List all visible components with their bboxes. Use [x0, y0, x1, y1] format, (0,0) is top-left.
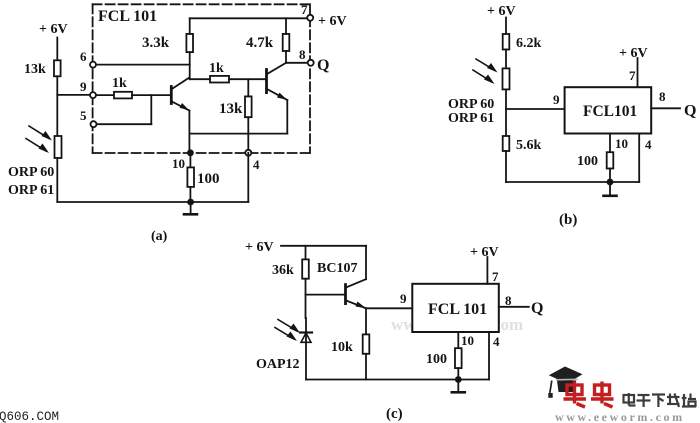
wire Q1 emitter down to pin10 — [188, 111, 190, 153]
pin 9 — [80, 79, 96, 98]
pin 8 wire (b) — [651, 107, 680, 109]
svg-text:Q606.COM: Q606.COM — [0, 410, 59, 423]
emitter rail wire — [189, 133, 287, 135]
resistor R 13k (internal) — [219, 96, 252, 117]
svg-text:+ 6V: + 6V — [619, 46, 648, 61]
LDR ORP60/61 body (b) — [503, 68, 510, 89]
wire LDR node down to 5.6k — [505, 89, 507, 136]
LDR ORP60/ORP61 body — [55, 136, 62, 158]
svg-text:Q: Q — [684, 103, 696, 120]
wire collector node to 1k — [190, 78, 210, 80]
logo graduation cap — [548, 367, 582, 398]
light arrow 2 (b) — [473, 70, 495, 84]
svg-text:7: 7 — [492, 269, 499, 284]
bottom rail (b) — [506, 181, 639, 183]
svg-text:4: 4 — [253, 157, 260, 172]
wire 1k to base Q2 — [229, 78, 266, 80]
wire +6V to 6.2k — [505, 18, 507, 35]
resistor R 100 (b) — [577, 152, 613, 169]
wire 4.7k bottom — [285, 51, 287, 63]
svg-text:7: 7 — [301, 2, 308, 17]
resistor R 100 — [187, 167, 219, 187]
svg-text:13k: 13k — [24, 62, 46, 77]
resistor R 5.6k — [503, 136, 542, 153]
light arrow 2 — [26, 139, 49, 154]
svg-text:ORP 60: ORP 60 — [8, 165, 54, 180]
wire pin6 to 3.3k node — [96, 64, 190, 66]
resistor R 1k (coupling) — [209, 61, 229, 83]
pin 7 — [301, 2, 313, 21]
wire collector up (c) — [365, 246, 367, 279]
svg-text:1k: 1k — [112, 76, 127, 91]
svg-text:100: 100 — [197, 171, 220, 187]
wire +6V to 13k — [56, 38, 58, 61]
wire 13k to LDR — [56, 76, 58, 136]
wire 6.2k to LDR — [505, 50, 507, 69]
svg-text:www.eeworm.com: www.eeworm.com — [555, 410, 685, 423]
logo chinese site name — [624, 393, 697, 407]
svg-text:9: 9 — [80, 79, 87, 94]
resistor R 13k — [24, 60, 61, 77]
resistor R 6.2k — [503, 34, 542, 51]
+6V supply label (a) — [39, 22, 68, 37]
transistor Q2 — [267, 63, 288, 100]
wire 3.3k bottom to collector node — [189, 52, 191, 79]
svg-text:9: 9 — [553, 92, 560, 107]
wire pin9 to R1k — [96, 94, 114, 96]
light arrow 1 (b) — [476, 59, 498, 73]
resistor R 1k (input) — [112, 76, 132, 98]
ground node (b) — [607, 179, 614, 186]
photodiode OAP12 — [300, 318, 312, 380]
ground node (a) — [187, 199, 194, 206]
svg-text:ORP 61: ORP 61 — [8, 183, 54, 198]
svg-text:36k: 36k — [272, 263, 294, 278]
svg-text:4.7k: 4.7k — [246, 35, 274, 51]
wire Q2 emitter down — [286, 100, 288, 134]
pin 8 — [299, 47, 314, 66]
wire 100 to ground node — [189, 187, 191, 202]
svg-text:(a): (a) — [151, 229, 168, 244]
wire collector node to pin 8 — [286, 62, 308, 64]
wire 13k bottom to pin4 — [247, 117, 249, 153]
ground rail wire (a) — [57, 201, 248, 203]
top rail inside IC — [190, 17, 311, 19]
svg-text:7: 7 — [629, 68, 636, 83]
svg-text:100: 100 — [426, 352, 447, 367]
pin 8 wire (c) — [499, 306, 529, 308]
wire 1k to base Q1 — [132, 94, 171, 96]
wire node to pin 9 — [57, 94, 92, 96]
svg-text:BC107: BC107 — [317, 261, 357, 276]
wire 5.6k down (b) — [505, 151, 507, 182]
svg-text:+ 6V: + 6V — [39, 22, 68, 37]
wire LDR to ground rail — [56, 158, 58, 202]
wire top to 36k — [305, 246, 307, 260]
svg-text:5.6k: 5.6k — [516, 138, 542, 153]
resistor R 4.7k — [246, 34, 289, 51]
svg-text:FCL101: FCL101 — [583, 103, 637, 120]
svg-text:(c): (c) — [386, 406, 403, 422]
IC U1 FCL101 dashed box — [93, 4, 310, 153]
svg-text:100: 100 — [577, 154, 598, 169]
svg-text:+ 6V: + 6V — [318, 14, 347, 29]
svg-text:+ 6V: + 6V — [470, 245, 499, 260]
svg-text:6: 6 — [80, 49, 87, 64]
resistor R 10k — [331, 334, 369, 355]
svg-text:FCL 101: FCL 101 — [428, 301, 487, 318]
wire 13k top — [247, 79, 249, 96]
wire base node to Q3 — [306, 294, 345, 296]
IC U3 FCL 101 box — [412, 284, 499, 332]
svg-text:OAP12: OAP12 — [256, 357, 300, 372]
svg-text:FCL 101: FCL 101 — [98, 8, 157, 25]
svg-text:ORP 61: ORP 61 — [448, 111, 494, 126]
svg-text:4: 4 — [493, 334, 500, 349]
wire 3.3k top — [189, 18, 191, 34]
top rail (c) — [281, 245, 366, 247]
wire emitter to pin 9 (c) — [366, 307, 412, 309]
ground node (c) — [455, 376, 462, 383]
svg-text:5: 5 — [80, 108, 87, 123]
resistor R 100 (c) — [426, 348, 462, 368]
pin 5 — [80, 108, 97, 127]
pin 7 wire (c) — [486, 257, 488, 284]
wire 100 bottom (b) — [609, 169, 611, 183]
pin 10 wire (c) — [457, 332, 459, 348]
svg-text:8: 8 — [659, 89, 666, 104]
svg-text:+ 6V: + 6V — [245, 240, 274, 255]
svg-text:9: 9 — [400, 291, 407, 306]
pin 6 — [80, 49, 96, 68]
wire pin5 loop — [97, 95, 152, 124]
light arrow 1 — [29, 126, 52, 141]
pin 4 — [245, 150, 260, 172]
pin 4 wire (b) — [638, 134, 640, 183]
pin 7 wire (b) — [637, 58, 639, 87]
pin 4 wire (c) — [488, 332, 490, 380]
transistor Q3 BC107 — [346, 279, 367, 308]
svg-text:10: 10 — [615, 136, 628, 151]
svg-text:+ 6V: + 6V — [487, 4, 516, 19]
svg-text:8: 8 — [299, 47, 306, 62]
pin 10 junction — [172, 149, 194, 171]
wire 36k to base node and photodiode — [305, 279, 307, 318]
wire 4.7k top — [285, 18, 287, 34]
svg-text:10k: 10k — [331, 340, 353, 355]
bottom rail (c) — [306, 379, 489, 381]
light arrow 2 (c) — [275, 328, 297, 342]
IC U2 FCL101 box — [565, 87, 652, 133]
wire 100 down (c) — [457, 368, 459, 379]
ground symbol (c) — [452, 380, 465, 393]
ground symbol (b) — [604, 182, 617, 196]
wire pin4 down — [247, 153, 249, 202]
svg-text:1k: 1k — [209, 61, 224, 76]
svg-text:4: 4 — [645, 137, 652, 152]
svg-text:8: 8 — [505, 293, 512, 308]
svg-text:3.3k: 3.3k — [142, 35, 170, 51]
resistor R 3.3k — [142, 34, 193, 52]
svg-text:ORP 60: ORP 60 — [448, 97, 494, 112]
light arrow 1 (c) — [278, 320, 300, 334]
svg-text:13k: 13k — [219, 101, 243, 117]
svg-text:(b): (b) — [559, 212, 577, 228]
pin 10 wire (b) — [609, 134, 611, 153]
wire node to pin 9 (b) — [506, 108, 565, 110]
svg-text:10: 10 — [172, 156, 185, 171]
wire emitter down to 10k — [365, 308, 367, 334]
svg-text:Q: Q — [531, 300, 543, 317]
transistor Q1 — [171, 78, 189, 111]
svg-text:10: 10 — [461, 333, 474, 348]
svg-text:Q: Q — [317, 57, 329, 74]
svg-text:6.2k: 6.2k — [516, 36, 542, 51]
ground symbol (a) — [184, 202, 197, 214]
wire pin10 to 100 — [189, 153, 191, 168]
logo chongchong red characters — [564, 382, 614, 408]
resistor R 36k — [272, 259, 309, 278]
wire 10k down — [365, 354, 367, 380]
